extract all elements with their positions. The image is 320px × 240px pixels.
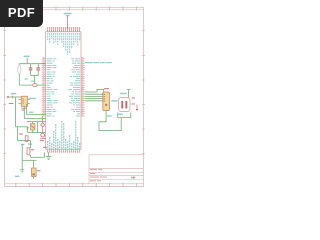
wire <box>26 58 28 64</box>
resistor R2 <box>25 136 28 142</box>
wire <box>27 127 29 133</box>
power flag <box>127 90 131 98</box>
junction <box>27 127 29 129</box>
IC U1 top pin numbers <box>47 27 80 29</box>
crystal Y1 <box>18 65 21 74</box>
text J1 <box>104 88 109 89</box>
label <box>28 143 32 144</box>
title block <box>89 155 144 184</box>
label <box>118 114 123 115</box>
wire <box>24 118 45 120</box>
wire <box>30 141 32 148</box>
text <box>9 103 14 104</box>
label <box>11 93 16 95</box>
wire <box>42 116 44 123</box>
IC U1 body <box>46 32 81 149</box>
title block text <box>90 169 135 181</box>
wire <box>26 104 28 115</box>
wire <box>32 122 34 124</box>
wire <box>18 140 31 142</box>
wire <box>9 96 22 98</box>
wire <box>27 121 46 123</box>
text U3 <box>37 170 41 171</box>
wire <box>85 98 103 100</box>
text <box>43 147 47 148</box>
junction mark <box>11 96 13 99</box>
text <box>132 103 135 104</box>
label <box>21 144 24 145</box>
label +3V3 <box>64 13 72 15</box>
IC U1 left pin names <box>47 58 58 116</box>
IC U1 top pin names <box>47 33 80 55</box>
wire <box>33 176 35 178</box>
net label OSC <box>24 56 30 58</box>
wire <box>18 64 20 65</box>
text R2 <box>19 133 23 134</box>
wire <box>99 111 121 131</box>
wire <box>42 127 44 133</box>
connector J1 <box>103 92 110 111</box>
crystal Y2 <box>119 98 131 112</box>
diode D1 <box>41 123 45 127</box>
LED D2 <box>41 133 45 137</box>
wire <box>31 75 39 77</box>
wire <box>16 126 28 128</box>
pin P1 <box>7 96 9 98</box>
capacitor C2 <box>37 64 39 76</box>
label GND <box>15 176 19 177</box>
wire <box>19 63 45 65</box>
wire <box>19 84 45 86</box>
text <box>132 97 135 98</box>
label U2 <box>29 98 36 99</box>
wire <box>44 152 46 157</box>
IC U1 right pin numbers <box>82 57 84 115</box>
frame division ticks <box>3 7 145 188</box>
wire <box>21 144 23 170</box>
wire <box>33 160 35 168</box>
ground <box>46 152 52 159</box>
text D2 <box>40 140 44 141</box>
capacitor C1 <box>30 64 32 76</box>
wire <box>22 159 36 161</box>
net label USB <box>85 62 112 63</box>
wire <box>85 100 103 102</box>
wire <box>37 122 39 133</box>
label <box>29 112 34 113</box>
wire <box>30 155 32 157</box>
wire <box>85 93 103 95</box>
label C1 <box>25 78 28 79</box>
label <box>107 115 112 116</box>
label C2 <box>31 81 34 82</box>
wire <box>28 132 46 134</box>
IC U1 bottom pins <box>48 149 80 152</box>
ground <box>20 170 24 173</box>
wire <box>118 112 131 117</box>
bar <box>40 137 45 139</box>
IC U1 left pin numbers <box>43 57 45 115</box>
IC U1 bottom pin numbers <box>47 151 80 153</box>
text R3 <box>31 149 34 150</box>
resistor R1 <box>33 84 37 87</box>
IC U1 left pins <box>42 59 46 116</box>
wire <box>17 127 19 141</box>
ground arrow <box>136 105 138 109</box>
wire <box>85 89 104 92</box>
wire <box>33 76 35 86</box>
wire <box>23 106 25 118</box>
wire <box>31 156 45 158</box>
IC U1 right pins <box>81 59 85 116</box>
wire <box>15 97 17 127</box>
wire <box>18 74 20 85</box>
IC U2 <box>21 96 27 106</box>
regulator U3 <box>32 168 37 176</box>
wire <box>85 95 103 97</box>
LED D3 <box>31 124 35 130</box>
IC U1 right pin names <box>68 58 80 116</box>
text U2 value <box>21 108 26 109</box>
label Y2 <box>120 93 127 94</box>
sheet frame <box>5 7 144 186</box>
wire <box>27 114 46 116</box>
IC U1 bottom pin names <box>47 121 80 149</box>
IC U1 top pins <box>48 29 80 32</box>
PDF badge <box>0 0 43 27</box>
wire <box>32 130 34 133</box>
power symbol +3V3 <box>66 16 70 29</box>
text <box>32 173 34 175</box>
label USB <box>111 100 117 101</box>
resistor R3 <box>27 148 30 155</box>
